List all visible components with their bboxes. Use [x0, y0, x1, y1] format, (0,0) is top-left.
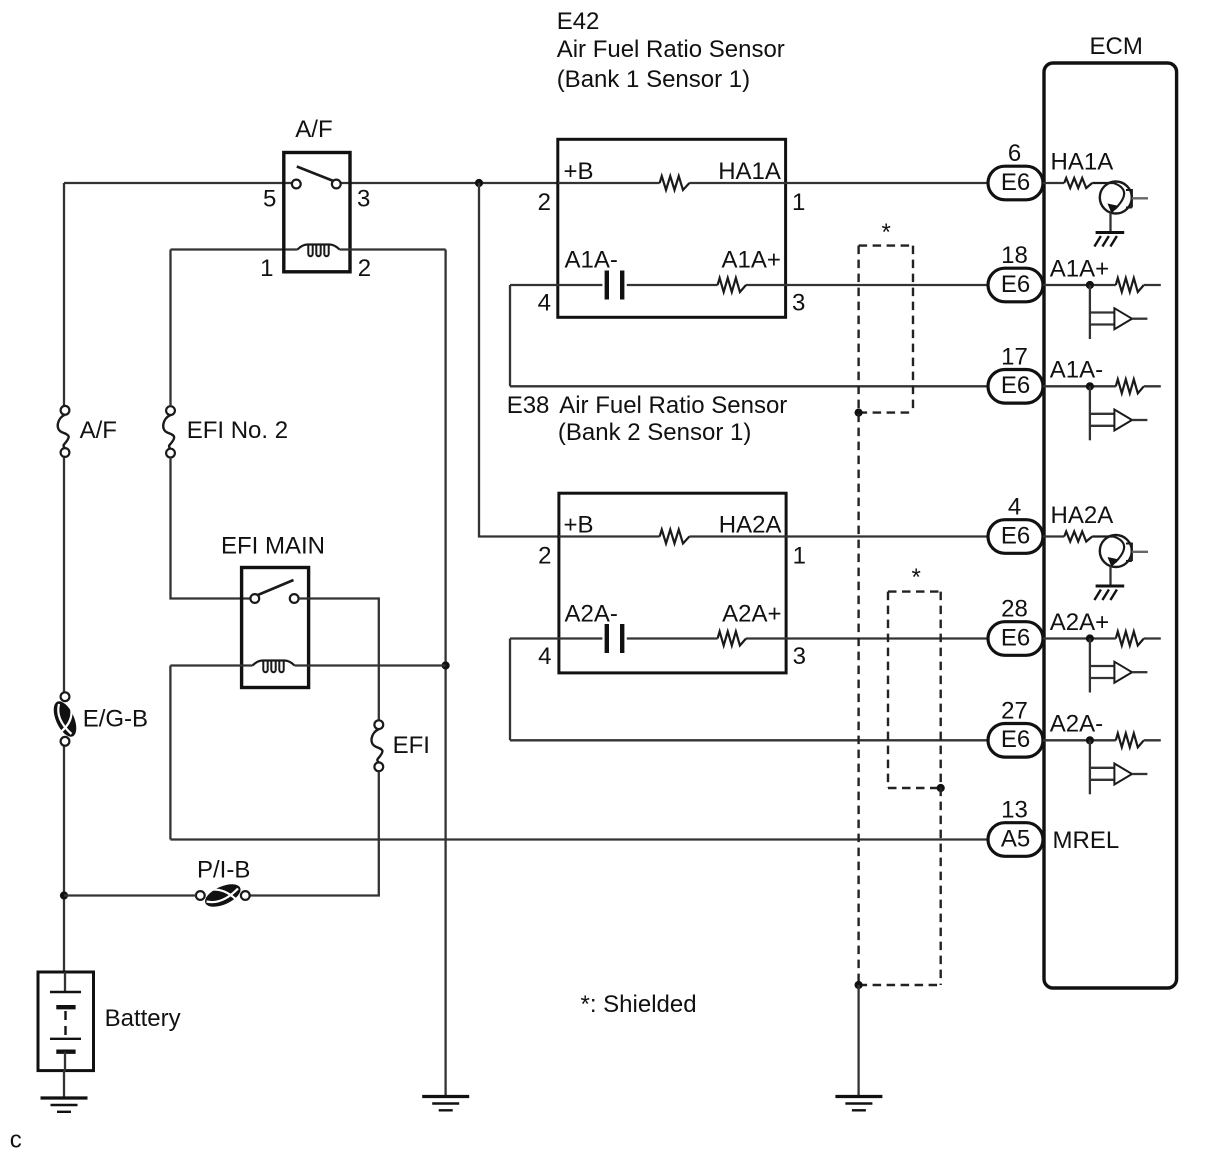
svg-text:E42: E42: [557, 8, 600, 35]
relay A/F switch blade: [297, 167, 334, 182]
svg-text:3: 3: [793, 643, 806, 670]
ground symbol for relay coils: [422, 1095, 469, 1098]
wire A1A- resistor stub: [1144, 385, 1161, 387]
battery box: [38, 972, 94, 1071]
wire sensor2 cell row: [510, 637, 602, 639]
svg-text:Battery: Battery: [105, 1005, 181, 1032]
shield2 dashed vertical to bottom: [940, 592, 942, 985]
wire shield drain to ground: [857, 985, 859, 1097]
resistor sensor cell 1: [718, 278, 746, 292]
transistor HA1A driver: [1100, 182, 1132, 214]
wire A1A+ resistor stub: [1144, 284, 1161, 286]
battery cell 2 short plate: [56, 1049, 75, 1053]
sensor E42 box: [558, 139, 786, 317]
connector E6 pin 6 oval: [988, 166, 1043, 200]
svg-text:A2A+: A2A+: [722, 601, 781, 628]
wire A1A+ into ECM: [1043, 284, 1116, 286]
svg-text:E6: E6: [1001, 726, 1030, 753]
wire HA2A emitter to ground: [1109, 566, 1111, 586]
svg-text:E6: E6: [1001, 522, 1030, 549]
svg-text:EFI MAIN: EFI MAIN: [221, 533, 325, 560]
wire ground rail vertical x=446: [444, 250, 446, 1096]
resistor HA2A base: [1064, 532, 1092, 542]
wire A1A- row to ECM: [510, 385, 988, 387]
battery internal top lead: [64, 972, 66, 992]
svg-text:A1A-: A1A-: [565, 247, 618, 274]
connector A5 pin 13 oval: [988, 823, 1043, 857]
svg-text:1: 1: [793, 543, 806, 570]
svg-text:A1A+: A1A+: [722, 247, 781, 274]
comparator A2A+: [1089, 639, 1091, 693]
svg-text:(Bank 1 Sensor 1): (Bank 1 Sensor 1): [557, 66, 750, 93]
wire HA1A emitter to ground: [1109, 213, 1111, 233]
wire MREL horizontal to ECM A5: [170, 838, 988, 840]
svg-text:A2A+: A2A+: [1050, 609, 1109, 636]
svg-text:*: Shielded: *: Shielded: [581, 991, 697, 1018]
connector E6 pin 27 oval: [988, 724, 1043, 758]
ground slanted HA1A: [1096, 231, 1125, 234]
ground slanted HA2A: [1096, 585, 1125, 588]
svg-text:HA2A: HA2A: [719, 512, 782, 539]
svg-text:2: 2: [358, 255, 371, 282]
svg-text:E/G-B: E/G-B: [83, 706, 148, 733]
node A1A- junction: [1086, 382, 1094, 390]
wire EFI No.2 fuse bottom to EFI MAIN relay switch: [171, 458, 251, 599]
svg-text:(Bank 2 Sensor 1): (Bank 2 Sensor 1): [558, 419, 751, 446]
svg-text:A1A-: A1A-: [1050, 357, 1103, 384]
svg-text:2: 2: [538, 189, 551, 216]
wire HA1A to driver: [1043, 182, 1064, 184]
svg-text:+B: +B: [564, 158, 594, 185]
relay EFI MAIN coil: [253, 661, 295, 666]
svg-text:E6: E6: [1001, 624, 1030, 651]
transistor HA2A driver: [1100, 535, 1132, 567]
node shield1 drain: [855, 409, 863, 417]
svg-text:*: *: [912, 564, 921, 591]
svg-text:2: 2: [538, 543, 551, 570]
resistor A2A+ input: [1116, 632, 1144, 646]
wire EFI MAIN switch right to EFI fuse: [299, 599, 379, 721]
node shield common drain: [855, 981, 863, 989]
relay A/F coil: [298, 245, 340, 250]
svg-text:A1A+: A1A+: [1050, 255, 1109, 282]
resistor A1A- input: [1116, 379, 1144, 393]
wire battery negative to ground: [63, 1071, 65, 1097]
connector E6 pin 17 oval: [988, 370, 1043, 404]
shield dashed box sensor2: [888, 590, 941, 592]
node EFI MAIN coil junction on ground rail: [442, 661, 450, 669]
svg-text:EFI: EFI: [393, 732, 430, 759]
wire sensor1 pin4 loop to A1A- row: [509, 285, 511, 386]
relay EFI MAIN switch blade: [258, 580, 294, 595]
fusible link P/I-B: [196, 891, 205, 900]
svg-text:c: c: [10, 1126, 22, 1153]
fuse EFI: [374, 720, 383, 729]
battery cell 1 short plate: [56, 1005, 75, 1009]
svg-text:ECM: ECM: [1090, 33, 1143, 60]
resistor sensor cell 2: [718, 632, 746, 646]
sensor E38 box: [559, 493, 786, 673]
wire A2A- resistor stub: [1144, 739, 1161, 741]
svg-text:18: 18: [1001, 242, 1028, 269]
wire EFI MAIN coil left to MREL: [170, 664, 252, 666]
wire A2A+ resistor stub: [1144, 637, 1161, 639]
comparator A1A-: [1089, 386, 1091, 440]
wire EFI No.2 fuse top to A/F relay coil pin 1: [169, 250, 171, 407]
svg-text:6: 6: [1008, 140, 1021, 167]
battery cell 2 long plate: [50, 1038, 81, 1040]
svg-text:3: 3: [792, 290, 805, 317]
svg-text:A5: A5: [1001, 825, 1030, 852]
svg-text:A2A-: A2A-: [1050, 711, 1103, 738]
resistor HA1A base: [1064, 178, 1092, 188]
svg-text:3: 3: [357, 186, 370, 213]
svg-text:1: 1: [260, 255, 273, 282]
connector E6 pin 28 oval: [988, 622, 1043, 656]
svg-text:4: 4: [538, 290, 551, 317]
relay EFI MAIN box: [242, 568, 309, 688]
wire A2A+ into ECM: [1043, 637, 1116, 639]
svg-text:13: 13: [1001, 797, 1028, 824]
wire A2A- row to ECM: [510, 739, 988, 741]
wire A2A+ row to ECM: [786, 637, 988, 639]
ECM box: [1044, 63, 1177, 988]
wire sensor2 pin4 loop to A2A- row: [509, 639, 511, 741]
wire EFI MAIN coil right to ground rail: [295, 664, 446, 666]
svg-text:1: 1: [792, 189, 805, 216]
connector E6 pin 4 oval: [988, 520, 1043, 554]
node A2A+ junction: [1086, 634, 1094, 642]
relay EFI MAIN contact left: [250, 594, 259, 603]
resistor heater sensor2: [660, 530, 690, 544]
relay A/F switch contact pin 3: [332, 180, 341, 189]
wire EFI fuse bottom to P/I-B row: [250, 771, 379, 895]
node junction on +B feed: [475, 179, 483, 187]
svg-text:EFI No. 2: EFI No. 2: [187, 417, 288, 444]
svg-text:Air Fuel Ratio Sensor: Air Fuel Ratio Sensor: [559, 392, 787, 419]
node shield2 drain: [937, 784, 945, 792]
comparator A1A+: [1089, 285, 1091, 339]
relay A/F box: [284, 153, 350, 272]
svg-text:P/I-B: P/I-B: [197, 857, 250, 884]
shield drain dashed vertical: [857, 246, 859, 985]
wire +B branch down to E38 sensor: [479, 183, 558, 537]
svg-text:E6: E6: [1001, 169, 1030, 196]
svg-text:E38: E38: [507, 392, 550, 419]
wire HA1A row to ECM: [786, 182, 988, 184]
svg-text:+B: +B: [564, 512, 594, 539]
svg-text:HA1A: HA1A: [718, 158, 781, 185]
wire HA2A to driver: [1043, 535, 1064, 537]
wire A1A+ row to ECM: [786, 284, 988, 286]
wire A2A- into ECM: [1043, 739, 1116, 741]
wire P/I-B to battery junction: [64, 894, 196, 896]
fuse A/F: [61, 406, 70, 415]
resistor heater sensor1: [660, 176, 690, 190]
fuse EFI No. 2: [166, 406, 175, 415]
wire sensor1 cell row: [510, 284, 602, 286]
battery internal bottom lead: [64, 1052, 66, 1071]
capacitor sensor cell 1: [605, 271, 609, 300]
resistor A1A+ input: [1116, 278, 1144, 292]
relay A/F switch contact pin 5: [292, 180, 301, 189]
svg-text:28: 28: [1001, 596, 1028, 623]
svg-text:E6: E6: [1001, 271, 1030, 298]
capacitor sensor cell 2: [605, 624, 609, 653]
node A1A+ junction: [1086, 281, 1094, 289]
battery cell 1 long plate: [50, 991, 81, 993]
node battery positive junction: [60, 891, 68, 899]
wire left vertical from top feed down to battery: [63, 183, 65, 406]
svg-text:A/F: A/F: [295, 116, 332, 143]
wire battery positive feed (top horizontal to A/F relay and sensors): [64, 182, 292, 184]
svg-text:E6: E6: [1001, 372, 1030, 399]
svg-text:A/F: A/F: [80, 417, 117, 444]
svg-text:HA2A: HA2A: [1051, 502, 1114, 529]
battery center dashed link: [64, 1011, 66, 1035]
svg-text:4: 4: [1008, 494, 1021, 521]
fusible link E/G-B: [61, 692, 70, 701]
svg-text:MREL: MREL: [1053, 827, 1120, 854]
relay EFI MAIN contact right: [290, 594, 299, 603]
ground symbol shield: [835, 1095, 882, 1098]
shield dashed box sensor1: [859, 244, 913, 246]
shield bottom dashed link: [859, 984, 941, 986]
svg-text:4: 4: [538, 643, 551, 670]
svg-text:Air Fuel Ratio Sensor: Air Fuel Ratio Sensor: [557, 36, 785, 63]
wire HA2A row to ECM: [786, 535, 988, 537]
wire +B internal row sensor2: [559, 535, 660, 537]
svg-text:5: 5: [263, 186, 276, 213]
svg-text:27: 27: [1001, 697, 1028, 724]
comparator A2A-: [1089, 740, 1091, 794]
resistor A2A- input: [1116, 733, 1144, 747]
svg-text:*: *: [882, 219, 891, 246]
svg-text:17: 17: [1001, 343, 1028, 370]
wire A/F relay coil pin 2 to ground rail: [340, 248, 446, 250]
node A2A- junction: [1086, 736, 1094, 744]
ground symbol battery: [41, 1096, 88, 1099]
svg-text:A2A-: A2A-: [565, 601, 618, 628]
wire A1A- into ECM: [1043, 385, 1116, 387]
wire +B internal row sensor1: [558, 182, 660, 184]
connector E6 pin 18 oval: [988, 268, 1043, 302]
svg-text:HA1A: HA1A: [1051, 149, 1114, 176]
